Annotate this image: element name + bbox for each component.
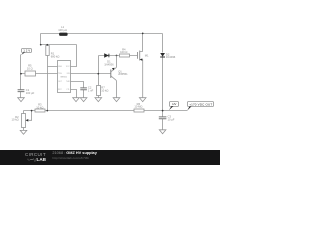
- node junction dots rail: [40, 33, 144, 46]
- node junction dot output: [162, 110, 164, 112]
- resistor R4: [120, 47, 130, 57]
- node junction dot feedback: [46, 110, 48, 112]
- wire pin1 riser: [71, 45, 77, 67]
- svg-text:NE555: NE555: [61, 76, 68, 78]
- svg-text:1N4936: 1N4936: [166, 55, 176, 59]
- svg-text:HV: HV: [172, 102, 176, 106]
- svg-text:1N4936: 1N4936: [104, 63, 114, 67]
- flag HV node: [169, 102, 179, 111]
- diode D1: [104, 53, 114, 66]
- svg-text:1 nF: 1 nF: [88, 89, 94, 93]
- svg-text:TRG: TRG: [58, 73, 62, 75]
- svg-text:GND: GND: [58, 66, 63, 68]
- svg-text:10 kΩ: 10 kΩ: [36, 105, 43, 109]
- resistor R3: [35, 103, 45, 113]
- resistor R7: [97, 85, 109, 95]
- svg-text:10 kΩ: 10 kΩ: [12, 118, 19, 122]
- footer url text: [52, 156, 89, 160]
- diode D2: [160, 52, 176, 59]
- svg-text:100 µF: 100 µF: [26, 91, 35, 95]
- wire IC ground pin: [71, 90, 77, 98]
- wire timing cap net: [71, 82, 84, 98]
- node junction dot wiper: [31, 110, 33, 112]
- transistor Q1: [111, 56, 128, 98]
- resistor R1: [46, 46, 60, 59]
- flag VIN: [21, 49, 32, 56]
- svg-text:100 Ω: 100 Ω: [120, 50, 127, 54]
- svg-text:10 MΩ: 10 MΩ: [134, 105, 142, 109]
- wire input net: [21, 55, 58, 98]
- svg-text:M1: M1: [145, 53, 149, 57]
- svg-text:10 kΩ: 10 kΩ: [101, 88, 108, 92]
- CircuitLab logo: [0, 150, 50, 165]
- resistor R5: [25, 64, 36, 76]
- wire D2 branch: [162, 34, 164, 111]
- flag +170 VDC OUT: [187, 102, 213, 111]
- wire second rail: [41, 44, 77, 46]
- node junction dot input: [20, 73, 22, 75]
- svg-text:+170 VDC OUT: +170 VDC OUT: [189, 102, 212, 106]
- capacitor C2: [80, 86, 93, 93]
- wire gate net: [99, 55, 138, 57]
- ground Q1: [113, 98, 120, 102]
- footer title text: [52, 151, 96, 155]
- resistor R6: [134, 102, 144, 112]
- capacitor C3: [159, 115, 175, 122]
- transistor M1: [138, 51, 150, 98]
- wire R1 feedback branch: [48, 45, 58, 111]
- wire base net: [71, 73, 111, 75]
- wire output cap net: [162, 111, 164, 130]
- ground IC pin: [73, 98, 80, 102]
- potentiometer R2: [12, 111, 32, 131]
- svg-text:10 µF: 10 µF: [168, 118, 175, 122]
- node junction dot base: [97, 73, 99, 75]
- footer bar: [0, 150, 220, 165]
- ground C3: [159, 130, 166, 134]
- wire top rail: [41, 33, 163, 35]
- IC U1 box: [58, 61, 71, 93]
- svg-text:10 Ω: 10 Ω: [27, 67, 33, 71]
- wire drain riser: [142, 34, 144, 52]
- wire left riser: [40, 34, 42, 45]
- wire bottom rail: [24, 111, 188, 114]
- ground C1: [18, 98, 25, 102]
- svg-text:2N5551: 2N5551: [118, 72, 128, 76]
- node junction dot collector: [116, 55, 118, 57]
- wire divider net: [98, 56, 100, 98]
- svg-text:680 kΩ: 680 kΩ: [51, 54, 60, 58]
- ground C2: [80, 98, 87, 102]
- svg-text:100 µH: 100 µH: [58, 28, 67, 32]
- capacitor C1: [18, 88, 35, 95]
- svg-text:12V: 12V: [23, 49, 30, 53]
- ground R7: [95, 98, 102, 102]
- ground R2: [20, 130, 27, 134]
- ground M1: [139, 98, 146, 102]
- svg-text:CTL: CTL: [66, 89, 69, 91]
- inductor L1: [58, 25, 67, 36]
